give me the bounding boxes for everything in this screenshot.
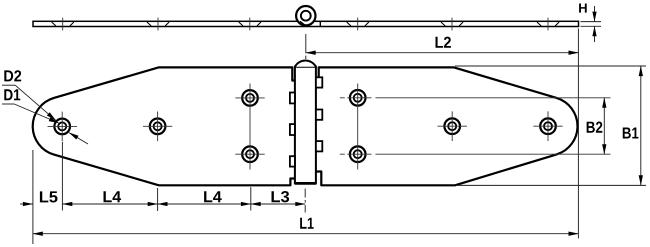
dimension L4 first line: [63, 203, 158, 205]
dimension L2 line: [306, 52, 578, 54]
label L1: [300, 218, 314, 229]
hole C extension line: [250, 187, 252, 211]
hinge barrel ring (side view): [296, 6, 315, 25]
dimension B2 line: [603, 98, 605, 154]
hole F cross: [533, 111, 562, 141]
label L3: [272, 191, 290, 202]
knuckle tabs left side: [290, 93, 295, 167]
dimension B1 line: [640, 66, 642, 185]
D1 leader with shoulder: [2, 103, 14, 105]
label D1: [4, 89, 20, 100]
L2 extension line at hinge center: [305, 34, 307, 59]
hinge barrel plan view: [295, 61, 316, 183]
B1 extension lines: [455, 66, 646, 185]
hole B cross: [143, 112, 172, 142]
hole C1 outer+inner: [242, 90, 258, 106]
dimension H arrows: [594, 6, 596, 42]
opposite diameter arrow: [69, 133, 88, 144]
L5 outside arrow: [20, 203, 33, 205]
dimension H extension lines: [581, 22, 602, 27]
label D2: [4, 70, 21, 81]
right end shared extension line: [577, 29, 579, 239]
hole A cross: [48, 112, 78, 142]
pair column D center line: [357, 84, 359, 170]
dimension L3 line: [251, 203, 305, 205]
label L5: [40, 191, 58, 202]
dimension L1 line: [33, 233, 578, 235]
hole A outer+inner: [54, 119, 70, 135]
hole F outer+inner: [540, 118, 556, 134]
hole B outer+inner: [150, 119, 166, 135]
dimension L4 second line: [158, 203, 251, 205]
D2 leader with shoulder: [2, 84, 15, 86]
hole E cross: [438, 111, 468, 141]
hole E outer+inner: [444, 118, 460, 134]
right leaf outline: [316, 67, 578, 185]
label B2: [587, 122, 603, 133]
side view plate strip: [33, 21, 579, 26]
leaf joint line in strip: [319, 21, 321, 26]
hole B extension line: [157, 188, 159, 211]
knuckle tabs right side: [316, 77, 322, 151]
label L2: [436, 37, 451, 48]
hole C2 outer+inner: [242, 146, 258, 162]
label H: [579, 3, 587, 12]
hinge center line below barrel: [304, 189, 306, 213]
pair column C center line: [249, 84, 251, 170]
hole D1 cross and B2 top extension line: [340, 97, 611, 99]
label L4 second: [204, 191, 222, 202]
label L4 first: [104, 191, 122, 202]
hole D2 outer+inner: [350, 146, 366, 162]
left leaf outline: [33, 67, 296, 185]
hole D1 outer+inner: [350, 90, 366, 106]
countersink marks on strip: [52, 22, 559, 26]
label B1: [623, 127, 639, 138]
barrel dome cap: [295, 61, 316, 67]
hole center cross lines: [48, 84, 611, 170]
left edge extension line: [32, 150, 34, 244]
strip edge mark inside ring: [300, 21, 305, 25]
hole D2 cross and B2 bottom extension line: [340, 153, 611, 155]
barrel bottom line: [295, 182, 316, 185]
strip hole center ticks: [63, 18, 548, 31]
hole A extension line: [61, 142, 63, 211]
holes C horizontal crosses: [235, 98, 264, 154]
